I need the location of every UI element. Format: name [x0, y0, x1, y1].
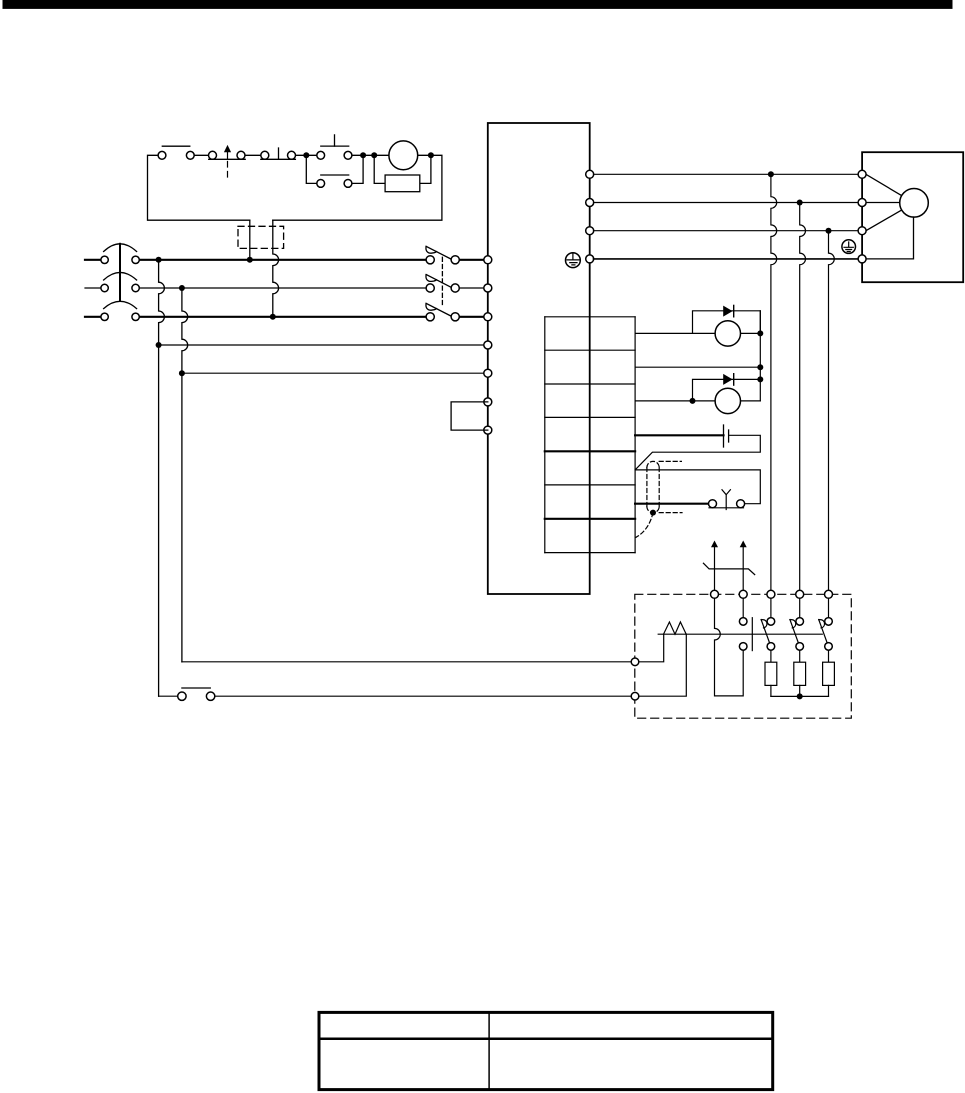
- wire V1 drop: [771, 174, 777, 594]
- heater switch column 2: [790, 598, 806, 696]
- wire W4: [594, 258, 863, 260]
- thermostat contacts: [709, 500, 717, 508]
- heater inlet wire A: [639, 634, 664, 662]
- contact bar NC: [321, 174, 349, 176]
- main line L3: [85, 316, 488, 318]
- wire c6-c7: [292, 154, 321, 156]
- wire W1: [594, 173, 863, 175]
- header bar: [3, 0, 953, 9]
- node pill dot: [650, 510, 656, 516]
- heater inlet wire B: [639, 634, 687, 696]
- heater dashed box: [635, 594, 852, 718]
- node A-L1: [156, 257, 162, 263]
- diode D2 branch: [693, 379, 761, 401]
- heater zigzag: [664, 622, 687, 634]
- motor box terminals: [858, 170, 866, 263]
- diode D2: [723, 374, 732, 385]
- plug CN2 arcs: [104, 244, 137, 252]
- capacitor C1 wire left: [635, 434, 723, 436]
- PCB right terminals: [586, 170, 594, 263]
- PCB U1 outline: [488, 123, 590, 594]
- node dots control loop: [303, 152, 434, 158]
- contact bar tangent c5-c6: [261, 158, 296, 160]
- resistor R1: [385, 175, 420, 192]
- heater wire2 drop: [742, 598, 744, 618]
- main line L1: [85, 259, 488, 261]
- terminal block TB1 grid: [545, 317, 635, 553]
- fan motor FM2 row3 wire: [635, 400, 760, 402]
- jumper box at PCB left: [451, 402, 488, 430]
- contact bar S1: [162, 145, 190, 147]
- wire W2: [594, 202, 863, 204]
- main line L4: [159, 344, 488, 346]
- node bus: [797, 693, 803, 699]
- motor M1 circle: [900, 189, 929, 218]
- connector CN1 dashed box: [238, 226, 284, 248]
- node control loop left drop junction: [247, 257, 253, 263]
- plug CN2 terminals: [101, 256, 139, 320]
- bottom feed wire from A: [159, 695, 632, 697]
- node V2-W2: [797, 200, 803, 206]
- heater box left terminals: [631, 658, 639, 666]
- fan motor FM1: [715, 321, 740, 346]
- node B-L2: [179, 285, 185, 291]
- main line L5: [182, 372, 488, 374]
- pressure contact circles: [739, 618, 747, 626]
- fan motor FM1 row1 wire: [635, 332, 760, 334]
- node V1-W1: [768, 171, 774, 177]
- breaker CB1 pole 2: [426, 275, 459, 293]
- PCB left terminals: [484, 256, 492, 434]
- node D2 right: [757, 376, 763, 382]
- heater wire1 drop with hop: [715, 598, 744, 696]
- bottom switch contacts: [178, 692, 186, 700]
- field wiring arrow 2: [740, 541, 747, 591]
- motor M3: [389, 141, 418, 170]
- wire V3 drop: [829, 231, 835, 595]
- contact bar tangent c3-c4: [209, 158, 246, 160]
- motor M1 connections: [866, 174, 914, 259]
- resistor R1 branch wire: [374, 155, 431, 183]
- compressor motor box: [862, 152, 963, 282]
- thermostat contact tangent bar: [709, 507, 744, 509]
- common vertical motors: [759, 311, 761, 401]
- node V3-W3: [826, 228, 832, 234]
- breaker CB1 pole 3: [426, 303, 459, 321]
- diode D1 branch: [693, 311, 761, 334]
- capacitor C1 plates: [723, 425, 725, 447]
- breaker CB1 mechanical link dashed: [441, 257, 443, 307]
- table: [319, 1012, 773, 1089]
- terminal block TB1 thick row line 5: [545, 450, 635, 452]
- wire c2-c3: [190, 154, 212, 156]
- wire V2 drop: [800, 203, 806, 595]
- terminal block TB1 thick row line 7: [545, 518, 635, 520]
- control circuit loop wire right part: [273, 155, 442, 220]
- contact terminals on control loop: [158, 151, 352, 187]
- field wiring arrow 1: [711, 541, 718, 591]
- disconnect slash: [703, 563, 754, 574]
- main line L2: [85, 287, 488, 289]
- heater switch column 3: [819, 598, 835, 696]
- heater line: [658, 633, 822, 635]
- breaker CB1 pole 1: [426, 246, 459, 264]
- thermostat Y actuator: [722, 490, 730, 510]
- wire vertical A from L1 down: [159, 260, 165, 696]
- row2 wire: [635, 366, 760, 368]
- pressure contact bar: [751, 618, 753, 651]
- NC branch wire: [306, 155, 363, 183]
- wire control loop right drop to L3 with hops: [273, 220, 279, 317]
- tick mark actuator: [278, 148, 280, 159]
- bottom feed wire from B: [182, 661, 631, 663]
- node D2 left: [690, 398, 696, 404]
- ground symbol G1: [566, 253, 581, 268]
- diode D1: [723, 306, 732, 317]
- wire control loop left drop to L1: [249, 220, 251, 260]
- wire W3: [594, 230, 863, 232]
- relay loop wire: [635, 470, 760, 504]
- heater box top terminals: [711, 590, 833, 598]
- heater resistor bus: [771, 695, 829, 697]
- control circuit loop wire left part: [148, 155, 250, 220]
- capacitor C1 wire right: [635, 435, 760, 470]
- push button actuator T: [321, 135, 349, 146]
- node B-L5: [179, 370, 185, 376]
- overload pill dashed: [636, 461, 682, 537]
- thermostat wire row6: [635, 503, 709, 505]
- node row2: [757, 364, 763, 370]
- node D1 right: [757, 330, 763, 336]
- ground symbol G2: [842, 240, 856, 254]
- wire vertical B from L2 down: [182, 288, 188, 662]
- node A-L4: [156, 342, 162, 348]
- fan motor FM2: [715, 388, 740, 413]
- heater switch column 1: [761, 598, 777, 696]
- node control loop right drop junction: [270, 314, 276, 320]
- dashed arrow actuator: [224, 145, 231, 178]
- bottom switch bar: [182, 687, 210, 689]
- plug CN2 center bar: [119, 244, 121, 301]
- wire c4-c5: [241, 154, 265, 156]
